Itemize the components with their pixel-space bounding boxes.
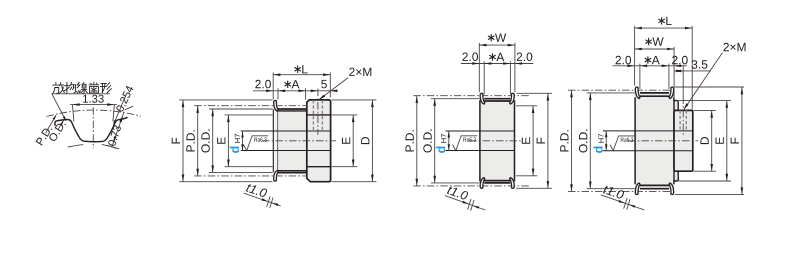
pulley 1 tooth tip lines (O.D.)	[278, 109, 307, 173]
pulley 1 setscrew hole centerline	[317, 89, 319, 135]
pulley 3 dim D: extension lines	[694, 110, 717, 171]
pulley 2 dim *W: line+arrows+label	[479, 34, 515, 47]
tooth profile detail: title 放物線歯形 (hand-drawn kanji)	[53, 82, 112, 93]
pulley 2 tooth band bottom (tip+root)	[484, 181, 510, 183]
title underline + leader to left tooth flank	[52, 94, 111, 122]
pulley 1 dim E (left): line+arrows+label	[217, 115, 230, 167]
pulley 3 tooth band bottom (tip+root)	[640, 185, 669, 188]
pulley 1 flange bottom lip	[274, 170, 279, 181]
pulley 3 label d (blue) H7	[594, 134, 604, 153]
pulley 1 hub (fill+outline)	[307, 100, 331, 182]
pulley 3 left face edge	[634, 97, 636, 184]
pulley 2 label 2.0 (right)	[517, 53, 533, 62]
pulley 1 dim O.D.: line+arrows+label	[201, 109, 214, 173]
pulley 2 horizontal centerline	[469, 140, 521, 142]
pulley 1 dim *L: extension lines	[273, 72, 330, 99]
pulley 1 setscrew hole walls (hidden)	[313, 100, 322, 131]
pulley 3 setscrew hole centerline	[682, 65, 684, 135]
pulley 1 flange (left, dia F) body	[273, 100, 278, 181]
pulley 1 dim F: line+arrows+label	[172, 100, 185, 182]
pulley 2 flange lips	[480, 93, 514, 188]
detail view break line (lower right)	[102, 144, 119, 148]
pulley 2 label *A	[489, 53, 504, 61]
label P.D. (detail, rotated) + leader	[36, 115, 57, 146]
pulley 3 dim O.D.: extension lines	[587, 93, 635, 189]
pulley 3 toothed body (fill)	[635, 93, 674, 189]
pulley 1 surface finish Ra6.3	[244, 136, 269, 151]
dimension 1.33 (groove width)	[70, 95, 117, 122]
pulley 1 toothed body (fill)	[277, 109, 307, 173]
pulley 2 dim F: extension lines	[517, 93, 553, 188]
pulley 3 dim E: extension lines	[679, 101, 731, 181]
pulley 3 right face edge (above/below shoulder)	[673, 97, 675, 184]
pulley 1 flange top lip	[274, 100, 279, 111]
pulley 2 chained dim extension lines (A ends)	[484, 61, 510, 94]
pulley 3 dim line 3.5 (to setscrew axis)	[674, 70, 711, 73]
pulley 3 dim E: line+arrows+label	[716, 101, 729, 181]
pulley 2 dim E: extension lines	[516, 106, 537, 176]
pulley 2 flange thickness callout t1.0	[445, 185, 486, 210]
pulley 1 flange thickness callout t1.0	[244, 183, 281, 208]
pulley 3 bore lines	[603, 131, 693, 151]
pulley 1 dim E (left): extension lines	[225, 115, 273, 167]
pulley 1 chained dim extension lines (A ends)	[278, 88, 306, 99]
pulley 1 label 2×M + leader	[319, 68, 372, 101]
pulley 2 P.D. lines (dash-dot)	[413, 96, 531, 186]
pulley 3 bore dim d H7: line+arrows	[605, 131, 607, 151]
pulley 3 label *A	[645, 56, 660, 64]
pulley 3 dim F: line+arrows+label	[731, 87, 744, 195]
pulley 3 shoulder sliver (E dia)	[674, 101, 678, 181]
pulley 1 hub step lines (E dia)	[307, 115, 331, 167]
dimension 0.73 (tooth depth, slanted)	[107, 106, 133, 148]
pulley 3 chained dim line 2.0/*A/2.0	[613, 65, 688, 68]
pulley 3 surface finish Ra6.3	[610, 136, 635, 151]
pulley 1 horizontal centerline	[262, 140, 336, 142]
pulley 2 label 2.0 (left)	[462, 53, 478, 62]
pulley 3 dim P.D.: line+arrows+label	[560, 90, 573, 191]
center line of groove (vertical dash-dot)	[92, 107, 94, 148]
pulley 1 tooth root lines	[278, 111, 307, 171]
pulley 1 bore lines (d)	[241, 131, 331, 151]
pulley 1 dim E (right): line+arrows+label	[342, 115, 355, 167]
pulley 2 body (fill)	[480, 99, 515, 183]
pulley 2 surface finish Ra6.3	[453, 136, 478, 151]
pulley 2 bore lines	[446, 131, 515, 151]
pulley 1 dim D: extension lines	[332, 100, 377, 182]
P.D. arc (dash-dot) of detail view	[47, 110, 141, 116]
pulley 3 dim *W: extension line (right)	[673, 47, 675, 97]
pulley 3 dim D: line+arrows+label	[700, 110, 713, 171]
pulley 3 flange thickness callout t1.0	[601, 185, 645, 210]
pulley 1 dim E (right): extension lines	[332, 115, 358, 167]
pulley 3 flange lips	[635, 87, 673, 195]
pulley 2 dim *W: extension lines	[479, 43, 515, 92]
pulley 1 dim F: extension lines	[179, 100, 272, 182]
pulley 2 dim F: line+arrows+label	[537, 93, 550, 188]
detail view break line (lower left)	[68, 145, 83, 147]
dimension 0.254 (corner radius, rotated) + leader	[113, 85, 134, 126]
pulley 3 P.D. lines (dash-dot)	[568, 90, 675, 191]
tooth groove profile curve	[55, 117, 128, 141]
label O.D. (detail, rotated) + leader	[48, 120, 66, 142]
pulley 1 dim O.D.: extension lines	[209, 109, 273, 173]
pulley 1 dim P.D.: line+arrows+label	[186, 106, 199, 176]
pulley 3 setscrew hole walls (hidden)	[680, 110, 686, 130]
pulley 1 label *A	[285, 80, 300, 88]
pulley 2 tooth band top (tip+root)	[484, 99, 510, 101]
pulley 2 bore dim d H7: line+arrows	[448, 131, 450, 151]
pulley 3 chained dim extension lines (A ends)	[640, 64, 669, 89]
pulley 2 chained dim line 2.0/*A/2.0	[461, 62, 533, 65]
pulley 1 label d (blue) H7	[230, 134, 240, 153]
pulley 1 label 2.0	[255, 80, 271, 89]
pulley 3 dim O.D.: line+arrows+label	[579, 93, 592, 189]
pulley 3 dim *L: extension lines	[635, 26, 693, 110]
pulley 3 tooth band top (tip+root)	[640, 93, 669, 96]
pulley 2 dim O.D.: line+arrows+label	[423, 99, 436, 183]
pulley 3 horizontal centerline	[628, 140, 698, 142]
pulley 1 bore dim d H7: line+arrows	[241, 131, 243, 151]
pulley 1 label 5	[321, 80, 327, 88]
pulley 1 dim *L: line+arrows+label	[273, 65, 330, 76]
pulley 3 hub (fill+outline)	[674, 110, 693, 171]
pulley 3 label 3.5	[692, 60, 708, 69]
pulley 1 dim D: line+arrows+label	[361, 100, 374, 182]
pulley 3 label 2.0 (left)	[616, 56, 632, 65]
pulley 1 chained dim line 2.0/*A/5	[253, 90, 338, 93]
pulley 2 dim E: line+arrows+label	[522, 106, 535, 176]
pulley 2 dim P.D.: line+arrows+label	[406, 96, 419, 186]
pulley 3 label 2.0 (right)	[672, 56, 688, 65]
pulley 2 left face edge	[479, 100, 481, 181]
pulley 2 dim O.D.: extension lines	[431, 99, 480, 183]
pulley 3 dim *L: line+arrows+label	[635, 17, 693, 30]
pulley 2 right face edge	[514, 100, 516, 181]
pulley 3 label 2×M + leader	[684, 43, 746, 110]
pulley 3 dim *W: line+arrows+label	[635, 37, 675, 50]
pulley 1 P.D. lines (dash-dot)	[194, 106, 307, 176]
pulley 3 dim F: extension lines	[675, 87, 744, 195]
pulley 2 label d (blue) H7	[436, 134, 446, 153]
